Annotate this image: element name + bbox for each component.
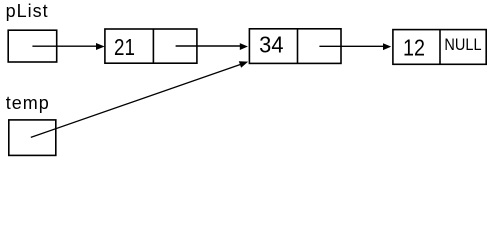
arrowhead into node 34 lower-left (239, 61, 248, 68)
node 12 NULL pointer label (444, 36, 481, 54)
pList pointer box (8, 30, 57, 62)
wire node 34 to node 12 (319, 45, 383, 47)
arrowhead into node 21 (96, 43, 105, 50)
label temp (6, 93, 50, 113)
node 21 box (105, 29, 197, 63)
node 12 data value (403, 34, 425, 61)
node 34 divider (297, 29, 299, 64)
node 34 data value (259, 31, 283, 58)
svg-text:21: 21 (114, 34, 135, 61)
node 12 box (393, 30, 486, 65)
wire temp to node 34 (diagonal) (31, 65, 241, 138)
temp pointer box (9, 120, 56, 155)
node 21 divider (152, 29, 154, 63)
label pList (6, 1, 49, 21)
node 21 data value (114, 34, 135, 61)
svg-text:pList: pList (6, 1, 49, 21)
node 12 divider (439, 30, 441, 65)
node 34 box (249, 29, 341, 64)
svg-text:temp: temp (6, 93, 50, 113)
svg-text:34: 34 (259, 31, 283, 58)
svg-text:12: 12 (403, 34, 425, 61)
wire node 21 to node 34 (176, 45, 241, 47)
arrowhead into node 12 (383, 43, 391, 50)
arrowhead into node 34 (240, 43, 248, 50)
svg-text:NULL: NULL (444, 36, 481, 54)
wire pList to node 21 (32, 45, 97, 47)
